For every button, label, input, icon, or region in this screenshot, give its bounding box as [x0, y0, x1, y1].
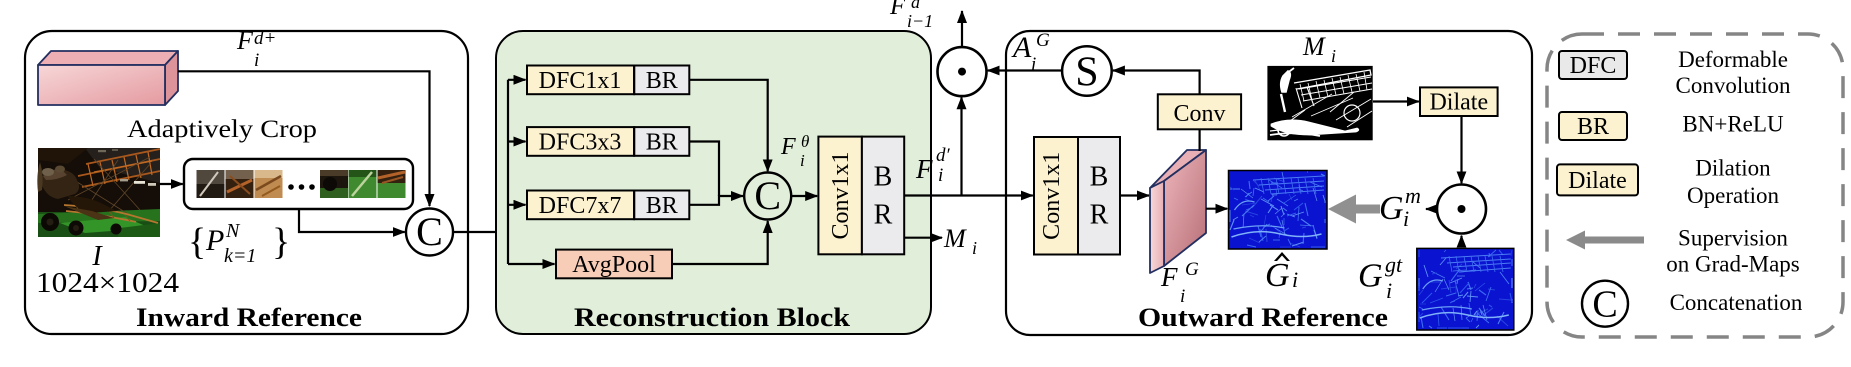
- wire AvgPool to C bottom: [672, 221, 768, 264]
- svg-text:C: C: [1592, 284, 1617, 326]
- svg-text:i: i: [972, 238, 977, 258]
- supervision gray arrow: [1328, 195, 1380, 224]
- svg-text:Conv1x1: Conv1x1: [1039, 152, 1065, 240]
- patch 5: [349, 170, 377, 198]
- svg-text:B: B: [1090, 162, 1109, 193]
- svg-text:M: M: [943, 224, 967, 253]
- fuselage streak: [1271, 120, 1359, 135]
- label F_{i-1}^a: [889, 0, 933, 31]
- svg-text:BN+ReLU: BN+ReLU: [1682, 112, 1784, 137]
- svg-text:F: F: [915, 154, 933, 184]
- box Conv: [1158, 94, 1241, 129]
- svg-text:i: i: [938, 165, 943, 186]
- wire M_i output: [904, 237, 942, 239]
- struts & wires: [1296, 88, 1302, 108]
- lights: [134, 181, 145, 184]
- label F_i^d+: [236, 26, 276, 71]
- svg-text:Conv1x1: Conv1x1: [828, 151, 854, 239]
- wing truss: [78, 149, 160, 187]
- legend box BR: [1559, 112, 1627, 140]
- svg-text:Adaptively Crop: Adaptively Crop: [127, 116, 317, 143]
- svg-text:P: P: [205, 224, 224, 257]
- panel Inward Reference: [25, 31, 468, 334]
- wire G_i^gt to dot-product: [1460, 236, 1462, 248]
- box Conv1x1 (reconstruction): [818, 137, 862, 255]
- svg-text:F: F: [1160, 262, 1178, 292]
- svg-text:BR: BR: [646, 68, 678, 94]
- wing grid: [1294, 70, 1371, 89]
- legend panel: [1547, 34, 1843, 337]
- wire BR2 to C left: [689, 142, 719, 197]
- label F_i^d': [915, 145, 951, 186]
- dot-product node (top): [938, 47, 987, 96]
- label G_i^m: [1379, 183, 1421, 231]
- svg-text:BR: BR: [646, 193, 678, 219]
- wire bus to DFC3x3: [508, 140, 526, 142]
- svg-text:G: G: [1265, 257, 1290, 294]
- wire S to dot-product: [988, 69, 1062, 71]
- wire dot-product up to F_{i-1}^a: [961, 11, 963, 47]
- input image I (airplane photo): [37, 148, 160, 237]
- panel Outward Reference: [1006, 31, 1532, 335]
- patch 1: [197, 170, 225, 198]
- label F_i^G: [1160, 259, 1199, 307]
- wire Conv to S: [1113, 71, 1200, 95]
- svg-text:Dilation: Dilation: [1695, 156, 1771, 181]
- wire BR1 to C top: [689, 80, 767, 172]
- svg-text:AvgPool: AvgPool: [572, 252, 656, 278]
- svg-text:d+: d+: [254, 28, 276, 49]
- svg-text:DFC3x3: DFC3x3: [539, 130, 622, 156]
- svg-text:i: i: [1403, 206, 1409, 231]
- patch 4: [320, 170, 348, 198]
- box AvgPool: [556, 250, 672, 279]
- patch strip box: [184, 159, 413, 209]
- image M_i (edge mask): [1267, 66, 1372, 140]
- svg-text:θ: θ: [801, 132, 809, 151]
- svg-text:BR: BR: [646, 130, 678, 156]
- wire dot-product to G_i^m: [1426, 208, 1437, 210]
- feature slab F_i^G (3D): [1150, 150, 1206, 273]
- svg-text:C: C: [754, 173, 781, 218]
- svg-text:Reconstruction Block: Reconstruction Block: [574, 303, 851, 332]
- input bus wire: [507, 80, 509, 264]
- svg-text:1024×1024: 1024×1024: [36, 267, 180, 299]
- wheels: [41, 213, 59, 231]
- box Dilate: [1420, 87, 1498, 116]
- box BR (row3): [634, 191, 689, 220]
- wire from 3D box to C: [178, 71, 430, 206]
- label G_i^gt: [1358, 252, 1403, 303]
- svg-text:G: G: [1379, 190, 1404, 227]
- svg-text:Concatenation: Concatenation: [1670, 290, 1803, 315]
- svg-text:k=1: k=1: [224, 245, 256, 267]
- dot-product node (grad): [1437, 185, 1486, 234]
- svg-text:Supervision: Supervision: [1678, 226, 1788, 251]
- svg-text:G: G: [1185, 259, 1199, 280]
- box DFC1x1: [527, 66, 634, 95]
- panel Reconstruction Block: [496, 31, 931, 334]
- wire branch up to dot-product: [960, 97, 962, 195]
- svg-text:DFC7x7: DFC7x7: [539, 193, 622, 219]
- svg-text:i: i: [1331, 46, 1336, 66]
- legend gray arrow: [1566, 231, 1644, 250]
- tail boom truss: [64, 205, 158, 223]
- svg-text:Conv: Conv: [1173, 101, 1225, 127]
- legend box DFC: [1559, 51, 1627, 79]
- svg-text:DFC1x1: DFC1x1: [539, 68, 622, 94]
- image G-hat (gradient map): [1229, 171, 1328, 250]
- patch 3: [255, 170, 283, 198]
- legend node C: [1582, 281, 1628, 327]
- wire photo to patches: [160, 183, 183, 185]
- svg-text:i: i: [800, 151, 805, 170]
- wire patches to C: [299, 209, 405, 232]
- svg-text:{: {: [188, 221, 206, 263]
- wire F_i^d' to outward conv: [904, 194, 1033, 196]
- svg-text:F: F: [780, 134, 796, 160]
- patch 6: [378, 170, 406, 198]
- label M_i (reconstruction output): [943, 224, 977, 258]
- label {P_k=1^N}: [188, 220, 290, 267]
- wire slab to G-hat image: [1206, 208, 1227, 210]
- box BR (row1): [634, 66, 689, 95]
- propeller: [37, 162, 42, 192]
- svg-text:C: C: [416, 209, 443, 254]
- svg-text:a: a: [911, 0, 920, 12]
- legend box Dilate: [1557, 164, 1638, 195]
- svg-text:F: F: [889, 0, 906, 20]
- svg-text:i: i: [1031, 54, 1036, 75]
- svg-text:F: F: [236, 26, 254, 55]
- svg-text:i: i: [254, 50, 259, 71]
- label F_i^theta: [780, 132, 809, 170]
- wire Dilate to dot-product: [1460, 116, 1462, 183]
- label A_i^G: [1011, 30, 1050, 75]
- wire bus to DFC1x1: [508, 79, 526, 81]
- svg-text:Dilate: Dilate: [1429, 90, 1488, 116]
- svg-text:i: i: [1386, 278, 1392, 303]
- sigmoid node S: [1062, 46, 1112, 96]
- concat node C (reconstruction): [744, 173, 791, 220]
- svg-text:DFC: DFC: [1570, 53, 1617, 79]
- svg-text:on Grad-Maps: on Grad-Maps: [1666, 252, 1800, 277]
- box BR (reconstruction tail): [862, 137, 904, 255]
- dots ...: [288, 184, 294, 190]
- box BR (outward): [1078, 137, 1120, 255]
- patch 2: [226, 170, 254, 198]
- svg-text:}: }: [272, 221, 290, 263]
- wire C to Conv1x1: [791, 195, 817, 197]
- svg-text:B: B: [874, 162, 893, 193]
- svg-text:Deformable: Deformable: [1678, 47, 1788, 72]
- svg-text:gt: gt: [1385, 252, 1403, 277]
- feature-map 3D box F_i^d+: [38, 51, 178, 105]
- wire BR3 to C left: [689, 196, 743, 205]
- concat node C (inward): [406, 209, 453, 256]
- svg-text:i: i: [1292, 267, 1298, 292]
- svg-text:G: G: [1358, 258, 1383, 295]
- svg-text:M: M: [1302, 32, 1326, 61]
- engine / fuselage: [40, 169, 79, 199]
- svg-text:Operation: Operation: [1687, 183, 1779, 208]
- label G-hat_i: [1265, 252, 1298, 294]
- rigging wires: [58, 157, 150, 214]
- svg-text:R: R: [1090, 200, 1109, 231]
- box DFC3x3: [527, 127, 634, 156]
- svg-text:Inward Reference: Inward Reference: [136, 303, 362, 332]
- pilot / strut: [1281, 71, 1291, 92]
- svg-text:BR: BR: [1577, 114, 1609, 140]
- svg-text:Convolution: Convolution: [1675, 73, 1791, 98]
- svg-text:S: S: [1075, 50, 1098, 96]
- wire bus to AvgPool: [508, 263, 555, 265]
- svg-text:m: m: [1405, 183, 1421, 208]
- wheels: [1344, 105, 1360, 121]
- wire Conv chain: slab top to Conv to S: [1198, 129, 1200, 151]
- wire C to reconstruction bus: [453, 231, 509, 233]
- box Conv1x1 (outward): [1034, 137, 1078, 255]
- wire M_i image to Dilate: [1373, 100, 1419, 102]
- wire BR to feature slab: [1120, 194, 1149, 196]
- svg-text:Dilate: Dilate: [1568, 168, 1627, 194]
- svg-text:R: R: [874, 200, 893, 231]
- svg-text:G: G: [1036, 30, 1050, 51]
- svg-text:i−1: i−1: [907, 11, 933, 31]
- svg-text:d′: d′: [936, 145, 951, 166]
- svg-text:N: N: [225, 220, 241, 242]
- wire bus to DFC7x7: [508, 204, 526, 206]
- box BR (row2): [634, 127, 689, 156]
- label M_i (mask image): [1302, 32, 1336, 66]
- image G_i^gt (ground-truth grad map): [1417, 248, 1514, 330]
- box DFC7x7: [527, 191, 634, 220]
- svg-text:Outward Reference: Outward Reference: [1138, 303, 1388, 332]
